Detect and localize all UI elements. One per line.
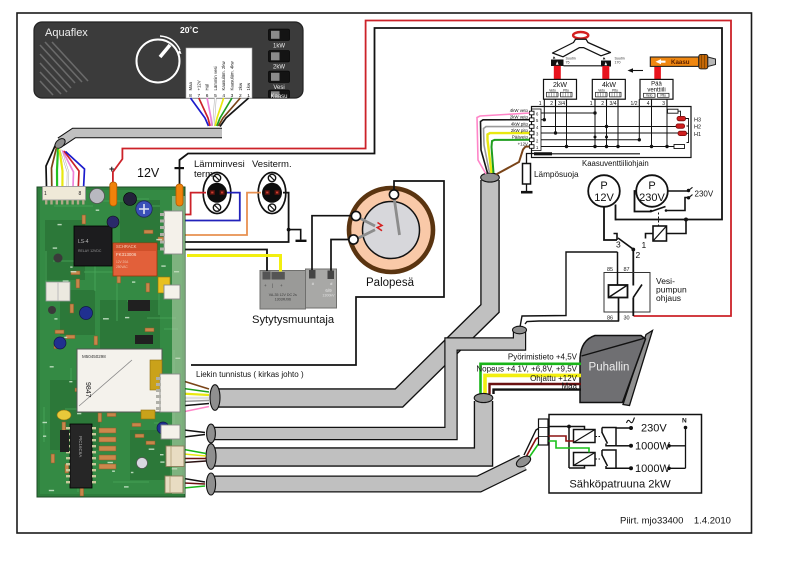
wire black PCB to transformer terminal 1 bbox=[182, 250, 267, 272]
Kaasu pipe cone tip bbox=[708, 57, 716, 67]
gas manifold neck and tent bbox=[553, 39, 611, 57]
svg-text:250VAC: 250VAC bbox=[116, 265, 128, 269]
svg-text:Kaasuläm. 4kw: Kaasuläm. 4kw bbox=[230, 60, 235, 90]
svg-text:RELAY 12VDC: RELAY 12VDC bbox=[78, 249, 102, 253]
fan wire dark red Ohjattu bbox=[490, 384, 582, 394]
svg-text:Lämpösuoja: Lämpösuoja bbox=[534, 170, 579, 179]
svg-text:9847: 9847 bbox=[84, 382, 91, 398]
cable E wires PCB side bbox=[184, 479, 205, 489]
relay coil for pump selector bbox=[642, 220, 687, 251]
svg-text:H3: H3 bbox=[694, 118, 701, 124]
panel terminal white box bbox=[186, 48, 252, 99]
wire node 2 down to relay contact bbox=[632, 250, 634, 285]
Puhallin fan blade bbox=[623, 331, 653, 406]
controller pins 6..1 bbox=[530, 111, 540, 150]
wire P12V to selector contact 3 bbox=[604, 207, 617, 240]
svg-text:12V 20A: 12V 20A bbox=[116, 260, 129, 264]
svg-text:2kW pito: 2kW pito bbox=[511, 128, 529, 133]
Kaasu gas supply pipe bbox=[650, 57, 699, 66]
PCB capacitors bbox=[48, 189, 169, 469]
controller pin column bbox=[532, 109, 542, 151]
wire orange PCB to Vesiterm left pad bbox=[182, 193, 261, 235]
cable C wire PCB side (white pair) bbox=[180, 430, 205, 438]
svg-text:|: | bbox=[272, 283, 273, 288]
wire red PCB to Lämminvesi left pad bbox=[182, 193, 206, 215]
wire yellow PCB to transformer terminal 3 bbox=[187, 256, 281, 272]
PCB DIP IC PIC16C6A bbox=[46, 282, 116, 488]
PCB connector D bbox=[166, 446, 184, 467]
svg-text:1300kV: 1300kV bbox=[322, 294, 335, 298]
HV wire left to upper electrode bbox=[312, 216, 352, 270]
Kaasu pipe hex fitting bbox=[699, 55, 708, 69]
wire P230V left to aux switch bbox=[635, 191, 652, 212]
svg-text:term.: term. bbox=[194, 169, 216, 180]
junction dot with chassis stub bbox=[287, 228, 291, 232]
cable C top end cap bbox=[513, 326, 527, 334]
svg-text:H2: H2 bbox=[694, 125, 701, 131]
svg-text:Kaasu: Kaasu bbox=[270, 94, 287, 100]
cable B wires PCB side bbox=[180, 380, 209, 413]
relay contact 87-30 bbox=[633, 284, 642, 316]
svg-text:Pito: Pito bbox=[660, 94, 666, 98]
svg-text:P: P bbox=[600, 180, 607, 192]
burner electrode terminals bbox=[349, 190, 399, 244]
svg-text:Veto: Veto bbox=[549, 89, 556, 93]
svg-text:ohjaus: ohjaus bbox=[656, 293, 681, 303]
svg-text:PIC16C6A: PIC16C6A bbox=[78, 436, 83, 457]
svg-text:Maa: Maa bbox=[561, 381, 577, 390]
PCB JP8 connector bbox=[164, 285, 180, 299]
panel wires down from terminal box bbox=[191, 98, 249, 127]
svg-text:+: + bbox=[109, 164, 115, 175]
PCB right-mid connector bbox=[160, 211, 183, 254]
svg-text:Veto: Veto bbox=[646, 94, 653, 98]
svg-text:1000W: 1000W bbox=[635, 463, 670, 475]
12V plus terminal bbox=[110, 182, 117, 206]
svg-text:Puhallin: Puhallin bbox=[589, 362, 630, 374]
12V minus terminal bbox=[176, 184, 183, 206]
patruuna internal common vertical bbox=[550, 427, 585, 469]
controller internal heater bar to Lämpösuoja bbox=[527, 154, 535, 164]
relay coil 85-86 bbox=[609, 285, 628, 298]
svg-text:2kW: 2kW bbox=[273, 65, 285, 71]
Kaasuventtiiliohjain controller box bbox=[532, 107, 692, 158]
pump P 230V bbox=[636, 175, 668, 207]
wire P12V right side stub bbox=[615, 205, 617, 221]
Sytytysmuuntaja HV box bbox=[306, 269, 337, 308]
Palopesä burner bbox=[349, 188, 433, 272]
valve 4kW bbox=[592, 79, 625, 99]
Vesipumpun ohjaus relay box bbox=[604, 273, 650, 313]
valve Pää terminals 1/2 4 3 bbox=[631, 99, 667, 107]
svg-text:Kaasuläm. 2kw: Kaasuläm. 2kw bbox=[221, 60, 226, 90]
panel cable wire fan to PCB connector bbox=[46, 146, 85, 187]
svg-text:+12V: +12V bbox=[518, 141, 528, 146]
relay drive wire1 from cable C cap to coil 85 bbox=[520, 252, 618, 327]
svg-text:4kW pito: 4kW pito bbox=[511, 121, 529, 126]
svg-text:Häl: Häl bbox=[205, 84, 210, 90]
cable D fan cable bbox=[212, 401, 484, 457]
svg-text:N: N bbox=[682, 418, 687, 425]
svg-text:Veto: Veto bbox=[598, 89, 605, 93]
svg-text:170: 170 bbox=[615, 61, 621, 65]
valve 2kW bbox=[544, 79, 577, 99]
thermostat Vesiterm. bbox=[258, 173, 286, 214]
PCB connector C bbox=[161, 425, 180, 439]
svg-text:FK313006: FK313006 bbox=[116, 252, 137, 257]
svg-text:230V: 230V bbox=[639, 192, 665, 204]
svg-text:2kw: 2kw bbox=[238, 82, 243, 91]
gas flow arrow bbox=[630, 70, 643, 72]
svg-text:VA-35 12V DC 2s: VA-35 12V DC 2s bbox=[269, 293, 297, 297]
valve 2kW terminals 1 2 3/4 bbox=[539, 99, 567, 107]
pump P 12V bbox=[588, 175, 620, 207]
aux switch blade bbox=[651, 207, 666, 212]
svg-text:1kW: 1kW bbox=[273, 44, 285, 50]
controller H3 H2 H1 indicator resistors and LEDs bbox=[668, 109, 702, 148]
patruuna relay coil 1 bbox=[574, 430, 596, 443]
svg-text:M50450298: M50450298 bbox=[82, 354, 106, 359]
PCB circuit board bbox=[37, 187, 185, 497]
svg-text:SCHRACK: SCHRACK bbox=[116, 244, 137, 249]
controller grid row lines bbox=[541, 113, 681, 147]
valve Pää venttiili bbox=[640, 79, 673, 99]
230V terminals for pump bbox=[687, 187, 714, 199]
burner spark bbox=[377, 223, 382, 231]
svg-text:Maa: Maa bbox=[188, 82, 193, 91]
svg-text:1: 1 bbox=[642, 240, 647, 250]
controller junction dots bbox=[543, 111, 669, 148]
cable D PCB end cap bbox=[206, 444, 216, 470]
cable E PCB end cap bbox=[206, 473, 215, 495]
svg-text:+12V: +12V bbox=[196, 80, 201, 90]
selector contact 3 with blade to node 2 bbox=[614, 234, 618, 241]
patruuna terminal block connector bbox=[539, 419, 549, 445]
wire 0V black loop from - terminal to pump circuit bbox=[180, 28, 723, 220]
patruuna relay coil 2 bbox=[574, 453, 596, 466]
svg-text:230V: 230V bbox=[695, 190, 714, 199]
Sähköpatruuna box bbox=[549, 415, 702, 494]
gas manifold burner ring bbox=[573, 32, 588, 39]
svg-text:Pääveto: Pääveto bbox=[512, 135, 529, 140]
red gas pipe to Pää venttiili bbox=[654, 64, 661, 79]
PCB pale right edge strip bbox=[172, 196, 185, 494]
svg-text:Lämmin vesi: Lämmin vesi bbox=[213, 66, 218, 90]
flame sense wire from top electrode bbox=[191, 181, 444, 365]
nozzle 4kW bbox=[601, 57, 611, 67]
patruuna contact 2 bbox=[596, 450, 630, 468]
svg-text:Piirt. mjo33400 1.4.2010: Piirt. mjo33400 1.4.2010 bbox=[620, 516, 731, 527]
node junction on 0V line bbox=[684, 218, 688, 222]
svg-text:1: 1 bbox=[44, 191, 47, 197]
PCB orange relay FK313006 bbox=[113, 243, 157, 276]
svg-text:+: + bbox=[264, 283, 267, 288]
svg-text:3: 3 bbox=[616, 240, 621, 250]
svg-text:P: P bbox=[648, 180, 655, 192]
wire black Vesiterm right pad to PCB bbox=[182, 193, 289, 242]
panel cable end cap bbox=[53, 137, 67, 151]
relay coil wire 85 up bbox=[617, 252, 619, 285]
svg-text:Pyörimistieto +4,5V: Pyörimistieto +4,5V bbox=[508, 353, 578, 362]
svg-text:12V: 12V bbox=[594, 192, 614, 204]
svg-text:1kw: 1kw bbox=[246, 82, 251, 91]
svg-text:venttiili: venttiili bbox=[647, 88, 665, 94]
Aquaflex control panel bbox=[34, 22, 303, 98]
PCB yellow components bbox=[158, 277, 170, 293]
Lämpösuoja thermal fuse bbox=[521, 164, 533, 193]
svg-text:H1: H1 bbox=[694, 132, 701, 138]
wire aux switch to 230V terminal bbox=[666, 198, 688, 211]
panel knob bbox=[137, 25, 199, 83]
controller pin wire labels bbox=[510, 108, 529, 147]
svg-text:85: 85 bbox=[607, 267, 613, 273]
svg-text:20˚C: 20˚C bbox=[180, 25, 198, 35]
svg-text:4kW veto: 4kW veto bbox=[510, 108, 529, 113]
svg-text:Vesiterm.: Vesiterm. bbox=[252, 159, 292, 170]
svg-text:Palopesä: Palopesä bbox=[366, 277, 415, 289]
svg-text:Pito: Pito bbox=[612, 89, 618, 93]
Puhallin fan body bbox=[580, 336, 646, 403]
cable B PCB end cap bbox=[210, 385, 220, 411]
svg-text:+: + bbox=[280, 283, 283, 288]
cable C PCB end cap bbox=[207, 424, 216, 443]
HV wire right to lower electrode bbox=[331, 240, 349, 271]
patruuna terminals and labels bbox=[627, 418, 688, 475]
svg-text:8: 8 bbox=[79, 191, 82, 197]
PCB transformer white box bbox=[77, 349, 162, 412]
svg-text:2kW veto: 2kW veto bbox=[510, 115, 529, 120]
nozzle 2kW bbox=[551, 56, 564, 66]
panel rocker switches bbox=[269, 29, 290, 100]
cable E top end cap bbox=[515, 454, 533, 469]
PCB connector E bbox=[165, 476, 183, 493]
PCB top-left connector (8-pin) bbox=[43, 187, 86, 205]
svg-text:Liekin tunnistus ( kirkas joht: Liekin tunnistus ( kirkas johto ) bbox=[196, 370, 304, 379]
svg-text:230V: 230V bbox=[641, 423, 667, 435]
PCB connector B (gas cable) bbox=[156, 374, 180, 412]
svg-text:Pito: Pito bbox=[563, 89, 569, 93]
valve 4kW terminals 1 2 3/4 bbox=[590, 99, 618, 107]
controller grid vertical drops from valve terminals bbox=[544, 107, 667, 147]
cable D wires PCB side bbox=[184, 450, 206, 463]
wire P230V right to 230V terminal bbox=[668, 190, 688, 192]
patruuna contact 1 bbox=[596, 428, 630, 446]
svg-text:Sytytysmuuntaja: Sytytysmuuntaja bbox=[252, 314, 335, 326]
svg-text:Nopeus +4,1V, +6,8V, +9,5V: Nopeus +4,1V, +6,8V, +9,5V bbox=[476, 365, 577, 374]
svg-text:75: 75 bbox=[566, 61, 570, 65]
relay coil wire 86 down bbox=[618, 298, 620, 322]
svg-text:1000W: 1000W bbox=[635, 440, 670, 452]
PCB black relay bbox=[74, 226, 112, 266]
fan wire yellow Nopeus bbox=[485, 375, 581, 394]
manifold lower rail bbox=[564, 65, 603, 67]
patruuna feed wires black red green from cable E bbox=[524, 427, 550, 455]
cable B fan wires to controller pins bbox=[477, 113, 530, 175]
thermostat Lämminvesi term. bbox=[203, 173, 231, 214]
cable E heater cable bbox=[212, 463, 523, 485]
Puhallin internal seam line bbox=[582, 339, 644, 357]
Sytytysmuuntaja primary box bbox=[260, 271, 306, 310]
svg-text:Sähköpatruuna 2kW: Sähköpatruuna 2kW bbox=[569, 479, 671, 491]
svg-text:1303RJ96: 1303RJ96 bbox=[275, 298, 291, 302]
cable B gas control cable bbox=[216, 180, 490, 398]
cable C pump relay cable bbox=[212, 332, 520, 434]
svg-text:Kaasuventtiiliohjain: Kaasuventtiiliohjain bbox=[582, 159, 649, 168]
gray cable from panel to PCB bbox=[61, 133, 223, 142]
dashed actuator link bbox=[658, 213, 660, 227]
fan wire black Maa bbox=[494, 390, 582, 394]
svg-text:Aquaflex: Aquaflex bbox=[45, 27, 88, 39]
cable D top end cap bbox=[474, 393, 493, 402]
red gas pipe to 4kW valve bbox=[602, 66, 609, 79]
svg-text:12V: 12V bbox=[137, 166, 160, 180]
relay drive wire2 from cable C cap to coil 86 bbox=[525, 298, 619, 325]
svg-text:Kaasu: Kaasu bbox=[671, 59, 690, 66]
PCB small ICs bbox=[128, 300, 150, 311]
cable B top end cap bbox=[481, 173, 500, 182]
svg-text:87: 87 bbox=[624, 267, 630, 273]
svg-text:30: 30 bbox=[624, 316, 630, 322]
fan wire green Pyörimistieto bbox=[481, 364, 582, 394]
burner electrode needles bbox=[357, 197, 400, 239]
svg-text:2: 2 bbox=[636, 250, 641, 260]
red gas pipe to 2kW valve bbox=[554, 66, 561, 80]
wire +12V red loop from + terminal around top to relay contact 30 bbox=[113, 21, 731, 317]
wire blue Lämminvesi right pad to PCB bbox=[182, 193, 240, 221]
svg-text:6/9: 6/9 bbox=[325, 288, 332, 293]
svg-text:LS-4: LS-4 bbox=[78, 239, 89, 245]
